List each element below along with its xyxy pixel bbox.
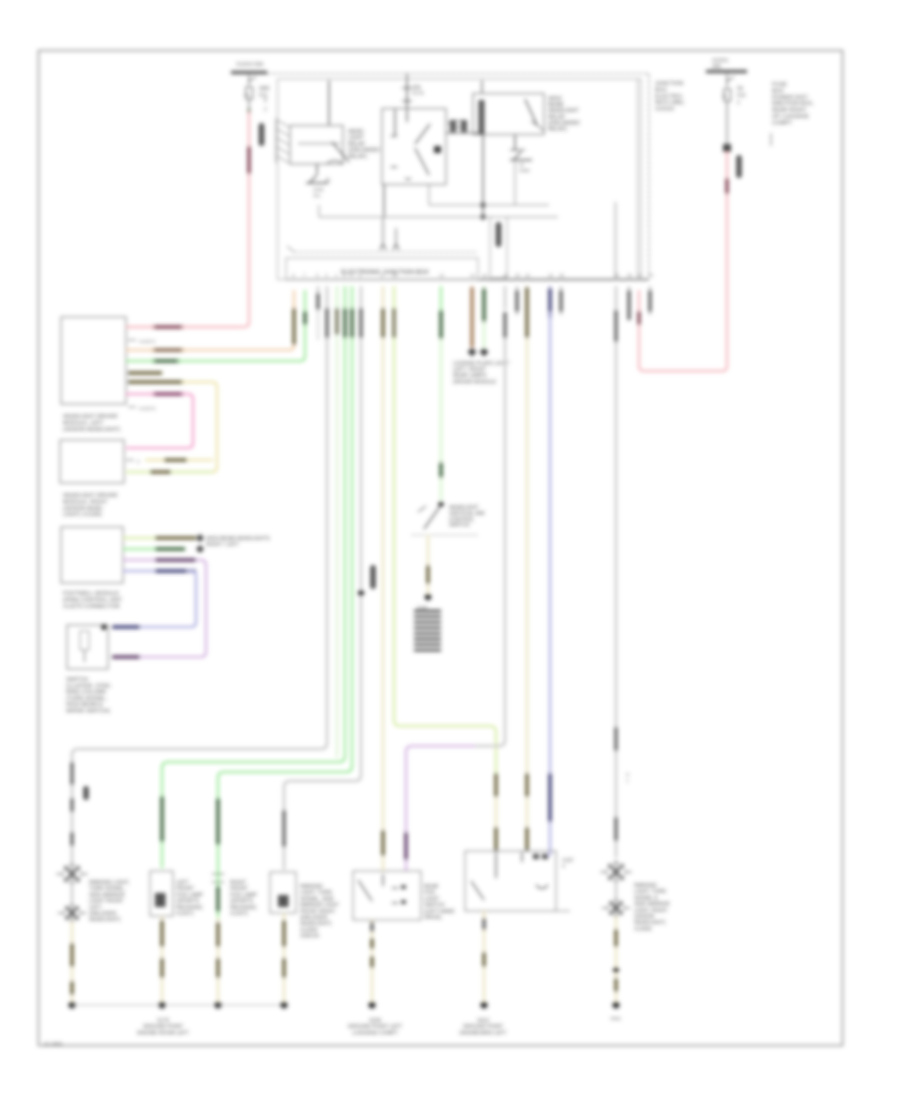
svg-text:X13362: X13362 (634, 926, 652, 932)
lamp E1 parking light (63, 865, 81, 883)
wire green Box A pin 3 (152, 359, 180, 362)
svg-text:HEAD-: HEAD- (348, 129, 365, 135)
svg-text:HEADLIGHT DRIVER: HEADLIGHT DRIVER (63, 414, 118, 420)
switch S2 headlight aim (438, 501, 444, 507)
splice dot on gray wire (358, 590, 364, 596)
svg-text:GROUND POINT: GROUND POINT (143, 1024, 184, 1030)
svg-text:31L: 31L (313, 193, 321, 199)
wire gray white to lamp column 4 (360, 286, 362, 308)
svg-text:Z185: Z185 (417, 605, 428, 610)
power rail bar top-right (706, 70, 747, 73)
relay K3 coil bar (479, 100, 485, 134)
relay K3 feed stub (481, 80, 483, 93)
svg-text:X10119: X10119 (655, 107, 674, 113)
svg-text:RIBUTION BOX,: RIBUTION BOX, (772, 101, 814, 107)
svg-text:LIGHT, RIGHT: LIGHT, RIGHT (634, 908, 669, 914)
module label box (286, 258, 478, 280)
svg-text:LUGGAGE COMPT: LUGGAGE COMPT (352, 1030, 399, 1036)
dashed link aim switch (412, 534, 477, 536)
svg-text:SWITCH: SWITCH (66, 677, 88, 683)
wire natural pale stub (336, 286, 338, 308)
svg-text:32: 32 (637, 273, 643, 278)
svg-text:DRIVER MODULE: DRIVER MODULE (453, 379, 497, 385)
svg-text:10: 10 (392, 273, 398, 278)
fuse F31 top-left (245, 75, 257, 109)
module pin drop wires (382, 217, 384, 245)
svg-text:REAR LAMPS: REAR LAMPS (453, 373, 487, 379)
wire green to aim switch (440, 286, 442, 310)
wire blue Box C pin 4 (155, 569, 196, 572)
internal element F-link box (490, 217, 507, 278)
svg-text:(UNLOADED: (UNLOADED (348, 148, 380, 154)
relay K3 box (473, 94, 544, 135)
module inner dashed line (294, 251, 478, 253)
svg-text:PARKING: PARKING (634, 883, 657, 889)
wire orange riser seg (292, 308, 295, 345)
svg-text:GND: GND (313, 187, 324, 193)
wire red feed left (248, 109, 251, 114)
svg-text:MODULE, LEFT: MODULE, LEFT (63, 420, 104, 426)
svg-text:CLUSTER, STEE-: CLUSTER, STEE- (66, 683, 112, 689)
svg-text:LIGHT, TURN: LIGHT, TURN (300, 890, 332, 896)
lamp E2 box (150, 871, 173, 916)
svg-text:SIGNAL &: SIGNAL & (634, 895, 658, 901)
svg-text:LIGHT: LIGHT (348, 135, 365, 141)
wire orange license plate (471, 286, 473, 308)
svg-text:LICENSE PLATE LIGHT: LICENSE PLATE LIGHT (453, 361, 510, 367)
svg-text:FRONT: FRONT (230, 886, 249, 892)
svg-text:FOG LAMP: FOG LAMP (176, 892, 203, 898)
pin text Box A lower (128, 406, 136, 408)
svg-text:X234: X234 (369, 1018, 381, 1024)
relay K1 coil ground wire (316, 164, 318, 174)
switch S4 output wire (483, 911, 485, 1001)
wire internal bus upper (429, 204, 549, 206)
svg-text:16: 16 (482, 273, 488, 278)
wire pink row seg (637, 311, 640, 325)
svg-text:RELAY: RELAY (548, 114, 566, 120)
wire stub pin 26 (560, 286, 562, 315)
switch S4 bottom edge ext (556, 910, 570, 912)
svg-text:X13275 CONNECTOR: X13275 CONNECTOR (63, 604, 120, 610)
wire red right feed (726, 152, 728, 178)
svg-text:34: 34 (648, 273, 654, 278)
relay K3 output vertical (482, 134, 484, 217)
svg-text:8: 8 (264, 98, 267, 104)
svg-text:5: 5 (316, 273, 319, 278)
module M3 box footwell module (61, 527, 123, 583)
svg-text:30A: 30A (712, 64, 722, 70)
svg-text:F174: F174 (412, 91, 424, 97)
switch S1 box turn-light switch (67, 625, 108, 669)
svg-text:6: 6 (448, 121, 451, 127)
svg-text:(SPORTS: (SPORTS (230, 899, 254, 905)
switch S4 box light switch (465, 851, 556, 911)
svg-text:2: 2 (137, 459, 140, 465)
svg-text:FUSE: FUSE (772, 82, 787, 88)
svg-text:X13272: X13272 (139, 406, 156, 412)
svg-text:NICS (JBE): NICS (JBE) (655, 100, 684, 106)
lamp E4 box (270, 872, 296, 913)
wire yellow Box A pin 5 to U-link (128, 380, 184, 383)
lamp E2 column wire (160, 796, 163, 842)
wire stub pin 34 (649, 286, 651, 315)
svg-text:(FRM) CONTROL UNIT: (FRM) CONTROL UNIT (63, 597, 123, 603)
svg-text:22: 22 (525, 273, 531, 278)
svg-text:GROUND POINT: GROUND POINT (463, 1024, 504, 1030)
wire yellow-green Box B pin low (150, 470, 171, 473)
svg-text:GROUND POINT LEFT: GROUND POINT LEFT (348, 1024, 403, 1030)
wire red Box A pin 1 (152, 325, 184, 328)
wire violet Box C pin 3 (155, 558, 196, 561)
svg-text:X13371: X13371 (176, 911, 194, 917)
wire dashed bus top (267, 73, 649, 75)
wire green B to lamp column 3 (351, 286, 353, 308)
svg-text:2: 2 (343, 273, 346, 278)
svg-text:31: 31 (325, 178, 331, 184)
wire tan to rear switch (382, 286, 384, 308)
svg-text:ELECTRO-: ELECTRO- (655, 94, 683, 100)
svg-text:OF LUGGAGE: OF LUGGAGE (772, 114, 809, 120)
svg-text:HEADLIGHT): HEADLIGHT) (634, 920, 666, 926)
svg-text:RIGHT / LEFT: RIGHT / LEFT (206, 542, 240, 548)
wire gray right lamp column (615, 286, 617, 310)
svg-text:26: 26 (559, 273, 565, 278)
lamp E3 column wire (216, 798, 219, 845)
svg-text:LIGHT: LIGHT (424, 896, 440, 902)
svg-text:SIGNAL, SIDE: SIGNAL, SIDE (300, 896, 335, 902)
relay K1 feed wire (328, 80, 330, 125)
module U1 junction box outline (278, 79, 642, 280)
switch S3 output wire (371, 920, 373, 1001)
connector pin pair (450, 120, 456, 132)
svg-text:1: 1 (626, 778, 629, 784)
wire yellow Box A pin 4 stub (128, 371, 162, 374)
svg-text:FOG: FOG (424, 890, 435, 896)
lamp E2 ground tail (161, 916, 163, 1001)
module M2 box headlight driver right (60, 440, 124, 483)
svg-text:9: 9 (292, 273, 295, 278)
lamp E4 column wire (282, 810, 285, 847)
svg-text:30A: 30A (412, 85, 422, 91)
svg-text:2: 2 (737, 100, 740, 106)
svg-text:FOOTWELL MODULE: FOOTWELL MODULE (63, 591, 119, 597)
module bottom edge (286, 279, 649, 281)
svg-text:BOX: BOX (655, 87, 667, 93)
svg-text:X13372: X13372 (230, 911, 248, 917)
wire orange Box A pin 2 (152, 348, 184, 351)
wire module right drop (615, 202, 617, 280)
svg-text:12: 12 (439, 273, 445, 278)
svg-text:30: 30 (264, 86, 270, 92)
svg-text:(XENON HEADLIGHT): (XENON HEADLIGHT) (63, 427, 120, 433)
svg-text:SWITCH: SWITCH (424, 903, 445, 909)
connector pin square (723, 144, 731, 152)
svg-text:28: 28 (614, 273, 620, 278)
svg-text:(HALOGEN: (HALOGEN (89, 911, 116, 917)
svg-text:WIPER SWITCH): WIPER SWITCH) (66, 709, 110, 715)
svg-text:TURN SIGNAL,: TURN SIGNAL, (89, 886, 125, 892)
wire gray pin stub (317, 286, 319, 308)
svg-text:RELAY): RELAY) (348, 154, 367, 160)
wire green A to lamp column 2 (344, 286, 346, 308)
svg-text:8: 8 (381, 273, 384, 278)
svg-text:51-0463: 51-0463 (44, 1042, 63, 1048)
wire green license plate (483, 286, 485, 324)
lamp E5 ground tail (615, 917, 617, 1001)
relay K2 switch box (382, 109, 446, 185)
svg-text:HEADLIGHT): HEADLIGHT) (89, 917, 121, 923)
svg-text:SIDE MARKER: SIDE MARKER (634, 902, 670, 908)
module dashed boundary right (648, 74, 650, 277)
svg-text:(XENON HEAD-: (XENON HEAD- (63, 506, 104, 512)
ground G1 (306, 175, 328, 183)
svg-text:HEADLIGHT DRIVER: HEADLIGHT DRIVER (63, 493, 118, 499)
svg-text:LIGHT FRONT: LIGHT FRONT (89, 899, 124, 905)
wire tan fog switch (526, 286, 528, 308)
wire pale green to right elbow (393, 286, 395, 308)
module pin marks inner (380, 244, 386, 250)
ground bus dashed line (72, 1004, 284, 1006)
svg-text:4: 4 (350, 273, 353, 278)
svg-text:7: 7 (303, 273, 306, 278)
power rail bar top-left (231, 71, 267, 74)
module M1 box headlight driver left (61, 317, 126, 404)
svg-text:2: 2 (264, 107, 267, 113)
svg-text:1: 1 (335, 273, 338, 278)
svg-text:HEADLIGHT: HEADLIGHT (548, 108, 580, 114)
svg-text:FRONT: FRONT (176, 886, 195, 892)
lamp E1 column wire (70, 762, 73, 785)
svg-text:X13271: X13271 (139, 339, 156, 345)
svg-text:PARKING: PARKING (300, 884, 323, 890)
lamp E5 second symbol (615, 882, 617, 898)
wire stub pin 20 (516, 286, 518, 315)
svg-text:X170: X170 (157, 1018, 169, 1024)
fuse F2 above relay K2 (406, 74, 408, 108)
wire internal bus lower (319, 216, 558, 218)
connector X300 capsule (259, 123, 265, 146)
svg-text:PARKING LIGHT,: PARKING LIGHT, (89, 880, 130, 886)
svg-text:BEAM: BEAM (548, 102, 564, 108)
relay K3 pin labels left (456, 120, 463, 122)
svg-text:LEFT / RIGHT: LEFT / RIGHT (453, 367, 487, 373)
svg-text:(UNLOADED: (UNLOADED (548, 120, 580, 126)
lamp E5 side marker (607, 863, 625, 881)
svg-text:20: 20 (515, 273, 521, 278)
svg-text:18: 18 (503, 273, 509, 278)
svg-text:HIGH BEAM &: HIGH BEAM & (66, 702, 103, 708)
relay K1 coil box (290, 126, 343, 165)
relay K2 output wire (383, 185, 385, 218)
wire gray long center (504, 286, 506, 310)
svg-text:LEFT: LEFT (89, 905, 103, 911)
wire yellow Box B pin mid (126, 459, 134, 461)
svg-text:FOG LAMP: FOG LAMP (230, 892, 257, 898)
wire violet Box D pin 2 (112, 655, 140, 658)
svg-text:X11010 30A: X11010 30A (236, 62, 264, 68)
svg-text:DASHBOARD LEFT: DASHBOARD LEFT (460, 1030, 508, 1036)
svg-text:POWER DIST-: POWER DIST- (772, 95, 809, 101)
svg-text:JUNCTION: JUNCTION (655, 81, 683, 87)
svg-text:BOX: BOX (772, 88, 784, 94)
svg-text:X413: X413 (477, 1018, 489, 1024)
svg-text:RIGHT: RIGHT (230, 880, 247, 886)
component R1 aim resistor block (414, 611, 441, 650)
svg-text:(SPORTS: (SPORTS (176, 899, 200, 905)
relay K1 contact blade (332, 142, 349, 162)
wire green Box C pin 2 arrow (155, 547, 185, 550)
svg-text:31: 31 (519, 162, 525, 168)
svg-text:GND: GND (519, 168, 530, 174)
svg-text:PACKAGE): PACKAGE) (176, 905, 203, 911)
wire pink Box A pin 6 to Box B (152, 392, 184, 395)
module inner right edge line (637, 79, 639, 279)
svg-text:X13352: X13352 (300, 927, 318, 933)
svg-text:14: 14 (470, 273, 476, 278)
wire green riser seg (303, 311, 306, 325)
svg-text:(LEFT-HAND: (LEFT-HAND (424, 909, 455, 915)
connector X301 capsule (736, 155, 742, 178)
svg-text:FRONT RIGHT: FRONT RIGHT (300, 909, 336, 915)
svg-text:SIDE MARKER: SIDE MARKER (89, 892, 125, 898)
svg-text:(XENON: (XENON (634, 914, 654, 920)
svg-text:PACKAGE): PACKAGE) (230, 905, 257, 911)
svg-text:4: 4 (562, 864, 565, 870)
wire blue Box D pin 1 (112, 625, 140, 628)
relay K3 ground branch (514, 135, 516, 150)
wire stub pin 30 (628, 286, 630, 315)
svg-text:ELECTRONIC JUNCTION BOX: ELECTRONIC JUNCTION BOX (341, 269, 429, 276)
link relay K2 to relay K3 (446, 132, 483, 134)
svg-text:LIGHT) X13281: LIGHT) X13281 (63, 512, 102, 518)
svg-text:RELAY): RELAY) (548, 127, 567, 133)
svg-text:RELAY: RELAY (348, 141, 366, 147)
wire yellow elbow tan drop (494, 773, 497, 797)
fuse F32 top-right (723, 74, 735, 144)
svg-text:3: 3 (325, 273, 328, 278)
svg-text:ENGINE ROOM LEFT: ENGINE ROOM LEFT (137, 1030, 189, 1036)
switch S3 box rear fog (353, 871, 421, 920)
svg-text:LIGHT, TURN: LIGHT, TURN (634, 889, 666, 895)
svg-text:DRIVE): DRIVE) (424, 915, 442, 921)
svg-text:(TURN SIGNAL,: (TURN SIGNAL, (66, 696, 107, 702)
svg-text:REAR: REAR (424, 884, 439, 890)
wire blue fog switch (549, 286, 551, 308)
connector X18102 capsule (370, 565, 376, 589)
relay K3 blade (525, 99, 537, 125)
svg-text:SWITCH: SWITCH (449, 523, 470, 529)
pin text Box A (128, 339, 136, 341)
relay K1 connector hatch (276, 118, 289, 163)
lamp E1 ground tail (71, 922, 73, 1001)
svg-text:X300 B+: X300 B+ (300, 934, 320, 940)
wire violet elbow to rear switch (475, 740, 505, 746)
wire yellow-green Box C pin 1 arrow (155, 536, 196, 539)
svg-text:30: 30 (627, 273, 633, 278)
svg-text:5A: 5A (737, 86, 744, 92)
svg-text:6: 6 (359, 273, 362, 278)
svg-text:MARKER LIGHT: MARKER LIGHT (300, 903, 340, 909)
wire gray to left lamp column (326, 286, 328, 308)
svg-text:X551: X551 (610, 1016, 622, 1022)
svg-text:MODULE, RIGHT: MODULE, RIGHT (63, 499, 108, 505)
svg-text:RING COLUMN: RING COLUMN (66, 690, 106, 696)
lamp E1 turn signal (71, 884, 73, 903)
svg-text:HIGH: HIGH (548, 96, 562, 102)
wire tan below aim switch (427, 535, 429, 565)
svg-text:COMPT: COMPT (772, 120, 793, 126)
svg-text:HEADLIGHT): HEADLIGHT) (300, 921, 332, 927)
svg-text:24: 24 (548, 273, 554, 278)
svg-text:REAR RIGHT: REAR RIGHT (772, 108, 807, 114)
svg-text:F32: F32 (737, 93, 746, 99)
lamp E4 ground tail (283, 913, 285, 1001)
svg-text:LEFT: LEFT (176, 880, 190, 886)
svg-text:(HALOGEN: (HALOGEN (300, 915, 327, 921)
